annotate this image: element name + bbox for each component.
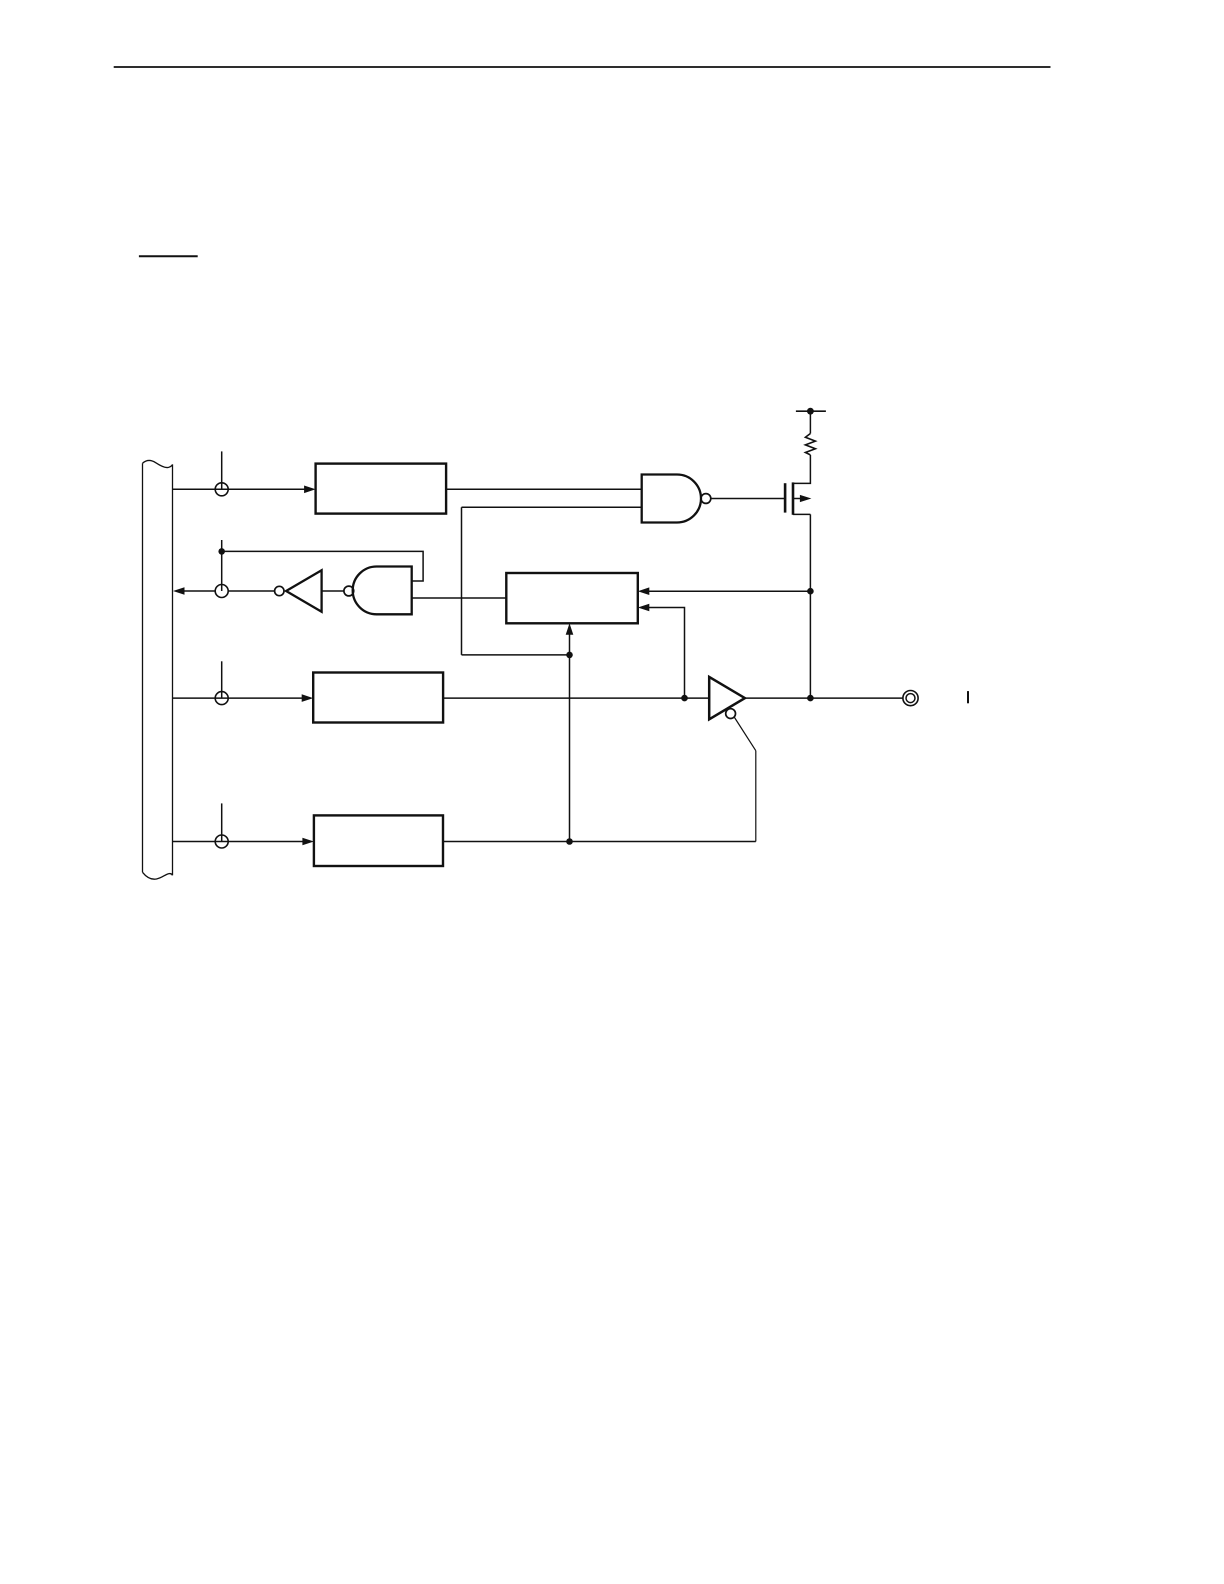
arrowhead into block B3 bbox=[302, 694, 314, 702]
wire down to row4 net bbox=[569, 655, 571, 842]
signal-name overline bbox=[139, 255, 198, 257]
output buffer U4 (tri-state) bbox=[709, 677, 745, 719]
resistor R1 (pull-up) zigzag bbox=[805, 434, 815, 455]
enable wire diagonal from bubble bbox=[734, 717, 756, 751]
NAND gate U1 body bbox=[642, 475, 701, 523]
wire from row3 junction up to B2 input 2 bbox=[649, 608, 685, 699]
inverter U3 body (points left) bbox=[286, 570, 322, 611]
transistor Q1 drain stub bbox=[793, 513, 810, 515]
internal bus (left rail) bbox=[142, 463, 144, 872]
wire row4 from bus to block B4 bbox=[173, 841, 304, 843]
block B4 bbox=[314, 815, 443, 866]
header rule bbox=[114, 66, 1051, 68]
transistor Q1 channel bar bbox=[792, 482, 795, 514]
wire row4 tap stub bbox=[221, 803, 223, 841]
enable wire vertical bbox=[755, 751, 757, 842]
transistor Q1 source stub bbox=[793, 455, 810, 483]
pin name tick bbox=[967, 691, 969, 703]
junction dot row3 to B2 branch bbox=[681, 695, 688, 702]
wire to NAND U1 input 2 bbox=[462, 506, 642, 508]
node: row4 bus tap circle bbox=[215, 835, 228, 848]
wire B3 output to buffer U4 bbox=[443, 697, 709, 699]
wire row2 tap stub bbox=[221, 540, 223, 591]
wire up into B2 bottom bbox=[569, 633, 571, 655]
U4 enable bubble bbox=[726, 709, 736, 719]
NAND U2 output bubble bbox=[344, 586, 354, 596]
wire row3 from bus to block B3 bbox=[173, 697, 304, 699]
transistor Q1 gate bar bbox=[784, 483, 787, 512]
internal bus (right rail) bbox=[172, 464, 174, 875]
arrowhead into B2 input 1 bbox=[638, 587, 650, 595]
arrowhead into bus bbox=[173, 587, 185, 595]
wire U4 output to pad bbox=[745, 697, 903, 699]
VDD rail bbox=[796, 410, 826, 412]
wire horizontal to junction under B2 bbox=[462, 654, 570, 656]
wire row1 from bus to block B1 bbox=[173, 488, 306, 490]
node: row1 bus tap circle bbox=[215, 483, 228, 496]
block B1 bbox=[316, 464, 447, 514]
internal bus top break squiggle bbox=[143, 460, 173, 467]
wire U2 output to inverter U3 bbox=[322, 590, 344, 592]
internal bus bottom break squiggle bbox=[143, 872, 173, 879]
wire Q1 drain down to pin net bbox=[809, 514, 811, 698]
wire VDD to resistor bbox=[809, 411, 811, 433]
junction dot pin node bbox=[807, 695, 814, 702]
arrowhead into block B1 bbox=[304, 486, 316, 494]
arrowhead into B2 bottom bbox=[566, 623, 574, 635]
wire U1 output to Q1 gate bbox=[711, 498, 784, 500]
inverter U3 output bubble bbox=[275, 586, 284, 595]
transistor Q1 body arrow bbox=[793, 498, 802, 500]
wire from drain net to B2 input 1 bbox=[649, 590, 810, 592]
node: row3 bus tap circle bbox=[215, 692, 228, 705]
VDD node dot bbox=[807, 408, 814, 415]
NAND U2 input 1 feedback stub bbox=[222, 551, 423, 581]
wire B4 output to enable net bbox=[443, 841, 756, 843]
junction dot row4 bbox=[566, 838, 573, 845]
pin pad inner circle bbox=[906, 694, 915, 703]
wire row2 to bus bbox=[184, 590, 215, 592]
wire B2 output to NAND U2 input 2 bbox=[412, 597, 507, 599]
block B3 bbox=[313, 673, 443, 723]
junction dot on drain net at row2 feedback bbox=[807, 588, 814, 595]
wire row3 tap stub bbox=[221, 661, 223, 698]
wire vertical from U1 input 2 down bbox=[461, 507, 463, 655]
block B2 bbox=[506, 573, 638, 623]
wire row1 tap stub bbox=[221, 451, 223, 489]
wire U3 output to row2 tap bbox=[228, 590, 274, 592]
NAND gate U2 body (points left) bbox=[353, 567, 412, 615]
junction dot on row2 tap stub bbox=[218, 548, 225, 555]
arrowhead into B2 input 2 bbox=[638, 604, 650, 612]
node: row2 bus tap circle bbox=[215, 585, 228, 598]
wire B1 output to NAND U1 input 1 bbox=[446, 488, 642, 490]
junction dot under B2 bbox=[566, 652, 573, 659]
arrowhead into block B4 bbox=[302, 838, 314, 846]
NAND U1 output bubble bbox=[701, 494, 711, 504]
pin pad outer circle bbox=[903, 691, 918, 706]
